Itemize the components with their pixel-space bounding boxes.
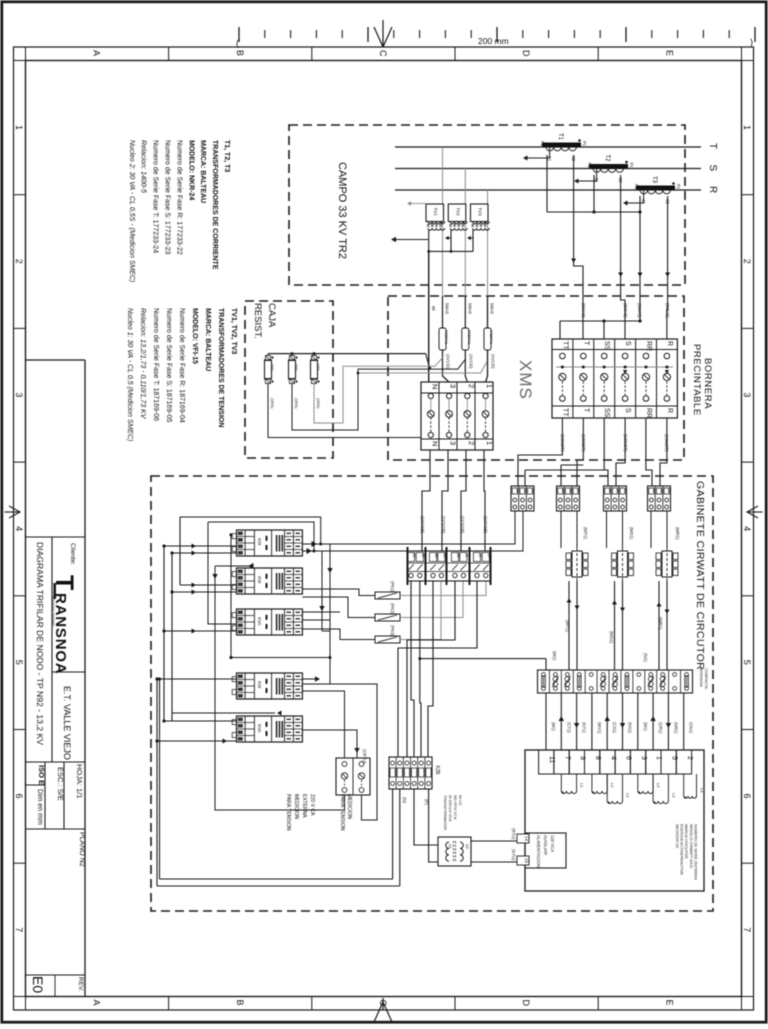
svg-text:TV3: TV3 bbox=[478, 208, 483, 217]
svg-text:T1: T1 bbox=[557, 133, 563, 141]
relay link MS bbox=[612, 543, 634, 585]
svg-text:RR: RR bbox=[645, 408, 652, 418]
svg-text:T2: T2 bbox=[604, 155, 610, 163]
svg-text:HOJA: 1/1: HOJA: 1/1 bbox=[75, 764, 84, 799]
svg-text:(AV1SI): (AV1SI) bbox=[468, 354, 473, 369]
svg-text:PR5TV1: PR5TV1 bbox=[444, 330, 448, 344]
breaker 2 pole bbox=[336, 758, 370, 795]
meter text block bbox=[675, 824, 697, 880]
svg-text:6: 6 bbox=[742, 794, 752, 799]
lower wire tags bbox=[420, 516, 488, 534]
svg-text:(CN1): (CN1) bbox=[689, 722, 694, 734]
svg-text:20: 20 bbox=[667, 489, 671, 493]
VT TV3 bbox=[471, 204, 490, 230]
svg-text:4: 4 bbox=[14, 526, 24, 531]
svg-text:E0: E0 bbox=[30, 976, 46, 993]
bornera exit tags bbox=[560, 434, 669, 452]
svg-text:(M1): (M1) bbox=[643, 722, 648, 731]
svg-text:(MV1): (MV1) bbox=[597, 722, 602, 734]
numbered terminals bbox=[539, 750, 693, 774]
svg-text:TV1: TV1 bbox=[433, 208, 438, 217]
svg-text:PLANO N2: PLANO N2 bbox=[78, 832, 85, 867]
relay top feeds bbox=[561, 511, 667, 548]
svg-text:(NR1): (NR1) bbox=[673, 722, 678, 734]
svg-text:220 V CA: 220 V CA bbox=[309, 794, 315, 816]
VT secondary arrows bbox=[445, 236, 473, 240]
svg-text:7: 7 bbox=[742, 927, 752, 932]
svg-text:MEDICION: MEDICION bbox=[293, 794, 299, 819]
aux transformer label bbox=[443, 795, 462, 830]
svg-text:(F): (F) bbox=[424, 799, 429, 805]
svg-text:(N): (N) bbox=[402, 797, 407, 804]
svg-text:ISO E: ISO E bbox=[37, 765, 46, 785]
svg-text:200 mm: 200 mm bbox=[478, 36, 509, 46]
svg-text:6: 6 bbox=[14, 794, 24, 799]
VT info text block bbox=[126, 308, 237, 441]
svg-text:110 VCA: 110 VCA bbox=[550, 835, 555, 852]
small strip 2 bbox=[557, 486, 581, 511]
svg-text:(6MA5): (6MA5) bbox=[665, 303, 670, 318]
svg-text:P2: P2 bbox=[540, 141, 545, 147]
svg-text:COMPACTA: COMPACTA bbox=[704, 668, 708, 689]
svg-text:L2: L2 bbox=[610, 783, 615, 788]
svg-text:A: A bbox=[92, 1000, 102, 1006]
ruler scale bbox=[236, 27, 755, 48]
VT secondary wires down bbox=[429, 251, 488, 382]
svg-text:(1RA): (1RA) bbox=[294, 398, 299, 409]
meter2 top tap bbox=[212, 563, 344, 810]
svg-text:T1, T2, T3: T1, T2, T3 bbox=[223, 140, 230, 172]
svg-text:PR5TV1: PR5TV1 bbox=[467, 330, 471, 344]
svg-text:(6MA5): (6MA5) bbox=[637, 303, 642, 318]
resistor R2 bbox=[289, 356, 300, 410]
meter terminal wire tags bbox=[551, 722, 694, 734]
relay bottom wires with arrows bbox=[567, 581, 670, 670]
svg-text:PR5TV1: PR5TV1 bbox=[489, 330, 493, 344]
BORNERA PRECINTABLE dashed box bbox=[388, 296, 684, 460]
wire CT1 S2 to col T bbox=[571, 155, 583, 339]
svg-text:SS: SS bbox=[603, 408, 610, 418]
svg-text:P2: P2 bbox=[587, 163, 592, 169]
svg-text:Cliente:: Cliente: bbox=[69, 543, 76, 565]
svg-text:(AV1SI): (AV1SI) bbox=[491, 354, 496, 369]
resistor R2 wire bbox=[292, 360, 465, 430]
svg-text:(1CV1B): (1CV1B) bbox=[441, 516, 446, 534]
svg-text:T: T bbox=[707, 143, 718, 149]
svg-text:4: 4 bbox=[742, 526, 752, 531]
svg-text:5: 5 bbox=[14, 660, 24, 665]
svg-text:T: T bbox=[582, 408, 589, 413]
CAJA RESIST dashed box bbox=[245, 301, 333, 458]
svg-text:(6MA5): (6MA5) bbox=[581, 303, 586, 318]
svg-text:X2B: X2B bbox=[434, 765, 440, 775]
X2B lower wires bbox=[393, 789, 438, 886]
svg-text:B: B bbox=[235, 1000, 245, 1006]
meter5 outputs bbox=[302, 730, 359, 758]
svg-text:20: 20 bbox=[615, 489, 619, 493]
svg-text:Numero de Serie Fase R: 177233: Numero de Serie Fase R: 177233-22 bbox=[175, 140, 182, 255]
svg-text:MODELO: VFI-15: MODELO: VFI-15 bbox=[191, 308, 198, 364]
svg-text:20: 20 bbox=[561, 489, 565, 493]
svg-text:(1SM3T): (1SM3T) bbox=[581, 434, 586, 452]
svg-text:TT: TT bbox=[561, 341, 568, 350]
svg-text:25: 25 bbox=[412, 554, 416, 558]
svg-text:2: 2 bbox=[14, 259, 24, 264]
alimentacion aux box bbox=[525, 833, 566, 868]
svg-text:Numero de Serie Fase S: 177233: Numero de Serie Fase S: 177233-23 bbox=[164, 140, 171, 255]
svg-text:3: 3 bbox=[742, 392, 752, 397]
svg-text:(1CV1B): (1CV1B) bbox=[460, 516, 465, 534]
svg-text:1SY: 1SY bbox=[316, 364, 320, 371]
terminal strip X2B bbox=[389, 757, 440, 789]
svg-text:L3: L3 bbox=[656, 783, 661, 788]
svg-text:2: 2 bbox=[742, 259, 752, 264]
svg-text:KW: KW bbox=[257, 681, 262, 689]
meter vertical links bbox=[229, 533, 332, 684]
frame letters top bbox=[92, 50, 675, 57]
strip top feeds bbox=[418, 657, 546, 670]
svg-text:REV.: REV. bbox=[77, 977, 84, 992]
bornera exit wires bbox=[518, 418, 667, 487]
meter right outputs mid bbox=[302, 612, 340, 631]
svg-text:(1RA): (1RA) bbox=[270, 398, 275, 409]
TRANSNOA logo bbox=[50, 575, 78, 674]
svg-text:MODELO: NKR-24: MODELO: NKR-24 bbox=[187, 140, 194, 200]
svg-text:A: A bbox=[92, 50, 102, 56]
resistor R1 bbox=[265, 356, 276, 410]
svg-text:2: 2 bbox=[467, 441, 476, 445]
svg-text:5MA5: 5MA5 bbox=[467, 303, 472, 315]
svg-text:(MS1): (MS1) bbox=[609, 631, 614, 644]
svg-text:20: 20 bbox=[608, 489, 612, 493]
svg-text:5MA5: 5MA5 bbox=[445, 303, 450, 315]
svg-text:TV2: TV2 bbox=[455, 208, 460, 217]
bus R bbox=[395, 189, 701, 191]
svg-text:TRANSFORMADORES DE TENSION: TRANSFORMADORES DE TENSION bbox=[217, 308, 224, 427]
svg-text:L1: L1 bbox=[580, 783, 585, 788]
svg-text:20: 20 bbox=[576, 489, 580, 493]
svg-text:XMS: XMS bbox=[516, 360, 535, 400]
ruler center arrow bbox=[374, 20, 392, 47]
svg-text:PARA TENSION: PARA TENSION bbox=[285, 794, 291, 831]
resistor top bus bbox=[268, 352, 431, 369]
svg-text:Numero de Serie Fase R: 187169: Numero de Serie Fase R: 187169-04 bbox=[178, 308, 185, 423]
svg-text:3: 3 bbox=[14, 392, 24, 397]
terminals 14 15 bbox=[517, 834, 529, 865]
svg-text:(CS1): (CS1) bbox=[612, 722, 617, 734]
svg-text:2: 2 bbox=[467, 384, 476, 388]
svg-text:Relacion: 13,2/1,73 - 0,110/1,: Relacion: 13,2/1,73 - 0,110/1,73 KV bbox=[139, 308, 146, 420]
svg-text:): ) bbox=[750, 37, 753, 47]
CT T3 burden arrow bbox=[623, 190, 644, 205]
svg-text:(NS1): (NS1) bbox=[628, 722, 633, 734]
svg-text:(NTU): (NTU) bbox=[511, 849, 516, 861]
svg-text:TRANSFORMADORES DE CORRIENTE: TRANSFORMADORES DE CORRIENTE bbox=[211, 140, 218, 270]
VT wire boxed tags bbox=[439, 328, 493, 350]
VT TV2 bbox=[448, 204, 467, 230]
svg-text:Nucleo 2: 30 VA - CL 0,5S -: Nucleo 2: 30 VA - CL 0,5S - (Medicion SM… bbox=[128, 140, 135, 282]
svg-text:DIAGRAMA TRIFILAR DE NODO - TP: DIAGRAMA TRIFILAR DE NODO - TP N92 - 13,… bbox=[35, 542, 45, 745]
svg-text:C: C bbox=[378, 50, 388, 57]
VT secondary common arrow bbox=[391, 237, 429, 243]
svg-text:(MT1): (MT1) bbox=[565, 620, 570, 632]
CT T3 bbox=[634, 176, 681, 205]
title block outline bbox=[26, 360, 85, 997]
svg-text:Nucleo 1: 30 VA - CL 0,5 (Med: Nucleo 1: 30 VA - CL 0,5 (Medicion SMEC) bbox=[126, 308, 133, 441]
svg-text:P1: P1 bbox=[582, 141, 587, 147]
left vertical feeders bbox=[155, 517, 180, 886]
svg-text:P1: P1 bbox=[676, 184, 681, 190]
svg-text:(MS1): (MS1) bbox=[629, 527, 634, 540]
CT T1 burden arrow bbox=[523, 147, 550, 160]
extra grey feeder bbox=[357, 362, 487, 375]
svg-text:N: N bbox=[430, 384, 439, 389]
svg-text:U1: U1 bbox=[448, 844, 452, 849]
small strip 3 bbox=[604, 486, 628, 511]
svg-text:Relacion: 1400-5: Relacion: 1400-5 bbox=[140, 140, 147, 193]
meter loop wire B bbox=[208, 522, 316, 624]
svg-text:(MT1): (MT1) bbox=[583, 527, 588, 539]
svg-text:50 HZ: 50 HZ bbox=[458, 795, 462, 806]
svg-text:MEDIDOR DE: MEDIDOR DE bbox=[675, 824, 679, 849]
meter M2 KW bbox=[232, 568, 302, 594]
XMS block lower wires bbox=[422, 450, 485, 551]
long terminal strip bornera compacta bbox=[538, 668, 709, 693]
strip1 lower wires bbox=[322, 511, 523, 551]
svg-text:RE=5TVI VCA: RE=5TVI VCA bbox=[453, 795, 457, 820]
svg-text:ALIMENTACION: ALIMENTACION bbox=[536, 835, 541, 868]
svg-text:E.T. VALLE VIEJO: E.T. VALLE VIEJO bbox=[62, 686, 72, 760]
relay link MR bbox=[656, 543, 678, 585]
svg-text:3: 3 bbox=[449, 441, 458, 445]
svg-text:D: D bbox=[521, 50, 531, 57]
aux transformer bbox=[438, 837, 471, 866]
svg-text:20: 20 bbox=[515, 489, 519, 493]
svg-text:(1SM3T): (1SM3T) bbox=[623, 434, 628, 452]
para tension text A bbox=[339, 794, 352, 831]
svg-text:TRANSFORMADOR: TRANSFORMADOR bbox=[443, 795, 447, 830]
meter terminal wires with arrows bbox=[546, 693, 684, 750]
svg-text:25: 25 bbox=[478, 554, 482, 558]
svg-text:(CRTU): (CRTU) bbox=[362, 749, 367, 764]
svg-text:CAMPO 33 KV TR2: CAMPO 33 KV TR2 bbox=[336, 162, 348, 259]
frame letters bottom bbox=[92, 1000, 675, 1007]
wire CT3 S2 to col R bbox=[665, 196, 670, 339]
svg-text:Numero de Serie Fase T: 177233: Numero de Serie Fase T: 177233-24 bbox=[152, 140, 159, 253]
VT TV1 bbox=[426, 204, 445, 230]
svg-text:EXTERNA: EXTERNA bbox=[301, 794, 307, 818]
svg-text:5MA5: 5MA5 bbox=[490, 303, 495, 315]
svg-text:D: D bbox=[521, 1000, 531, 1007]
CT info text block bbox=[128, 140, 230, 282]
CT T2 burden arrow bbox=[574, 169, 597, 184]
svg-text:RESIST.: RESIST. bbox=[252, 303, 263, 339]
svg-text:MARCA: BALTEAU: MARCA: BALTEAU bbox=[199, 140, 206, 203]
wide strip lower wires bbox=[398, 581, 477, 757]
svg-text:(MR1): (MR1) bbox=[658, 617, 663, 630]
svg-text:1: 1 bbox=[742, 125, 752, 130]
svg-text:(MR1): (MR1) bbox=[675, 527, 680, 540]
VT secondary leads bbox=[429, 230, 473, 251]
svg-text:(PK1): (PK1) bbox=[390, 581, 395, 592]
svg-text:T: T bbox=[582, 341, 589, 346]
svg-text:L3: L3 bbox=[671, 793, 676, 798]
svg-text:25: 25 bbox=[456, 554, 460, 558]
svg-text:Dim en mm: Dim en mm bbox=[36, 789, 43, 825]
fuse feed wires bbox=[302, 589, 375, 640]
svg-text:SS: SS bbox=[603, 341, 610, 351]
svg-text:(CT1): (CT1) bbox=[566, 722, 571, 733]
svg-text:20: 20 bbox=[568, 489, 572, 493]
feeder taps to meters bbox=[157, 544, 282, 744]
long bottom horizontals bbox=[157, 677, 400, 886]
svg-text:MODELO CIRWATT B410: MODELO CIRWATT B410 bbox=[689, 824, 693, 868]
svg-text:20: 20 bbox=[659, 489, 663, 493]
frame zone dividers top/bottom bbox=[169, 47, 599, 1010]
svg-text:(RTU): (RTU) bbox=[511, 828, 516, 840]
wire CT2 S2 to col S bbox=[618, 175, 625, 339]
svg-text:(N1): (N1) bbox=[643, 653, 648, 662]
CT T2 bbox=[587, 155, 634, 184]
wide terminal strip bbox=[407, 547, 491, 585]
svg-text:ESC.: S/E: ESC.: S/E bbox=[56, 767, 65, 801]
wire common to link bbox=[638, 212, 643, 321]
svg-text:15: 15 bbox=[524, 858, 529, 864]
svg-text:TV1, TV2, TV3: TV1, TV2, TV3 bbox=[230, 308, 237, 354]
strip tags bbox=[583, 527, 680, 540]
svg-text:20: 20 bbox=[623, 489, 627, 493]
svg-text:TT: TT bbox=[561, 408, 568, 417]
svg-text:20: 20 bbox=[531, 489, 535, 493]
svg-text:(NT1): (NT1) bbox=[582, 722, 587, 733]
svg-text:ENERGIA ACTIVA/REACTIVA: ENERGIA ACTIVA/REACTIVA bbox=[680, 824, 684, 875]
mid wire tags bbox=[552, 617, 663, 662]
VT wire lower labels bbox=[446, 354, 496, 369]
fuse PK2 bbox=[375, 614, 400, 621]
meter M1 KW bbox=[232, 530, 302, 556]
svg-text:BORNERA: BORNERA bbox=[702, 358, 713, 409]
svg-text:25: 25 bbox=[421, 554, 425, 558]
svg-text:SOCIEDAD ANONIMA: SOCIEDAD ANONIMA bbox=[52, 596, 56, 626]
svg-text:P2: P2 bbox=[634, 184, 639, 190]
svg-text:AUXILIAR: AUXILIAR bbox=[543, 835, 548, 855]
svg-text:S: S bbox=[624, 341, 631, 346]
svg-text:S: S bbox=[707, 165, 718, 172]
svg-text:CAJA: CAJA bbox=[266, 303, 277, 328]
CT common bus wire bbox=[547, 155, 642, 214]
svg-text:U2: U2 bbox=[465, 844, 469, 849]
frame zone dividers left/right bbox=[14, 195, 754, 864]
svg-text:KW: KW bbox=[257, 538, 262, 546]
resistor R1 wire bbox=[268, 384, 428, 438]
svg-text:P1: P1 bbox=[629, 163, 634, 169]
svg-text:N: N bbox=[430, 441, 439, 446]
svg-text:(1SM3T): (1SM3T) bbox=[560, 434, 565, 452]
CT T1 bbox=[540, 133, 587, 162]
para tension text B bbox=[285, 794, 315, 831]
svg-text:20: 20 bbox=[652, 489, 656, 493]
svg-text:(1SM3T): (1SM3T) bbox=[664, 434, 669, 452]
svg-text:T3: T3 bbox=[651, 176, 657, 184]
meter M3 KVAR bbox=[232, 609, 302, 635]
relay link MT bbox=[566, 543, 588, 585]
svg-text:(1RA): (1RA) bbox=[316, 398, 321, 409]
svg-text:1SY: 1SY bbox=[294, 364, 298, 371]
frame numbers right bbox=[742, 125, 752, 932]
svg-text:NUMERO DE SERIE 252789006: NUMERO DE SERIE 252789006 bbox=[693, 824, 697, 880]
svg-text:(M1): (M1) bbox=[552, 651, 557, 661]
svg-text:E: E bbox=[664, 50, 674, 56]
meter4 outputs bbox=[302, 676, 377, 820]
terminal block bornera 6col bbox=[552, 339, 677, 418]
svg-text:B: B bbox=[235, 50, 245, 56]
svg-text:7: 7 bbox=[14, 927, 24, 932]
svg-text:1: 1 bbox=[485, 384, 494, 388]
frame centering marks bbox=[374, 998, 392, 1022]
meter M4 KW bbox=[232, 673, 302, 699]
svg-text:GABINETE CIRWATT DE CIRCUTOR: GABINETE CIRWATT DE CIRCUTOR bbox=[694, 481, 706, 670]
bus S bbox=[395, 168, 701, 170]
title cells bbox=[30, 764, 85, 993]
svg-text:1SY: 1SY bbox=[270, 364, 274, 371]
svg-text:1: 1 bbox=[14, 125, 24, 130]
fuse output grey wires bbox=[400, 581, 486, 640]
svg-text:20: 20 bbox=[523, 489, 527, 493]
meter M5 KVAR bbox=[232, 716, 302, 742]
svg-text:(CR1): (CR1) bbox=[658, 722, 663, 734]
svg-text:(PK3): (PK3) bbox=[390, 625, 395, 636]
svg-text:Numero de Serie Fase S: 187169: Numero de Serie Fase S: 187169-05 bbox=[165, 308, 172, 423]
svg-text:5: 5 bbox=[742, 660, 752, 665]
svg-text:(1CV1B): (1CV1B) bbox=[483, 516, 488, 534]
GABINETE CIRWATT dashed box bbox=[151, 476, 713, 911]
svg-text:PRECINTABLE: PRECINTABLE bbox=[691, 344, 702, 416]
VT neutral tie bbox=[427, 250, 473, 253]
svg-text:R: R bbox=[707, 186, 718, 193]
svg-text:MARCA CIRCUTOR: MARCA CIRCUTOR bbox=[684, 824, 688, 859]
aux output wires bbox=[471, 828, 517, 862]
svg-text:Numero de Serie Fase T: 187169: Numero de Serie Fase T: 187169-06 bbox=[152, 308, 159, 421]
svg-text:25: 25 bbox=[464, 554, 468, 558]
bus taps to VTs grey bbox=[443, 147, 488, 296]
VT wire top labels bbox=[431, 303, 495, 315]
svg-text:2: 2 bbox=[686, 756, 693, 760]
svg-text:PARA TENSION: PARA TENSION bbox=[339, 794, 345, 831]
small strip 4 bbox=[648, 486, 672, 511]
svg-text:25: 25 bbox=[434, 554, 438, 558]
wire tags above bornera bbox=[581, 303, 670, 318]
svg-text:3: 3 bbox=[449, 384, 458, 388]
svg-text:M 220/110 VCA: M 220/110 VCA bbox=[448, 795, 452, 822]
svg-text:RR: RR bbox=[645, 341, 652, 351]
svg-text:MI: MI bbox=[431, 306, 436, 311]
bus T bbox=[395, 146, 701, 148]
resistor R3 bbox=[311, 356, 322, 410]
meter loop wire A bbox=[180, 517, 322, 547]
svg-text:BORNERA: BORNERA bbox=[699, 668, 703, 687]
svg-text:MEDICION: MEDICION bbox=[346, 794, 352, 819]
svg-text:E: E bbox=[664, 1000, 674, 1006]
svg-text:(1CV1B): (1CV1B) bbox=[420, 516, 425, 534]
resistor R3 wire grey bbox=[314, 357, 443, 423]
CAMPO 33 KV TR2 dashed box bbox=[289, 125, 685, 285]
svg-text:(PK2): (PK2) bbox=[390, 603, 395, 614]
fuse PK1 bbox=[375, 592, 400, 599]
terminal block XMS 4col bbox=[421, 382, 494, 450]
frame numbers left bbox=[14, 125, 24, 932]
svg-text:(AV1SI): (AV1SI) bbox=[446, 354, 451, 369]
svg-text:(M1): (M1) bbox=[551, 722, 556, 731]
